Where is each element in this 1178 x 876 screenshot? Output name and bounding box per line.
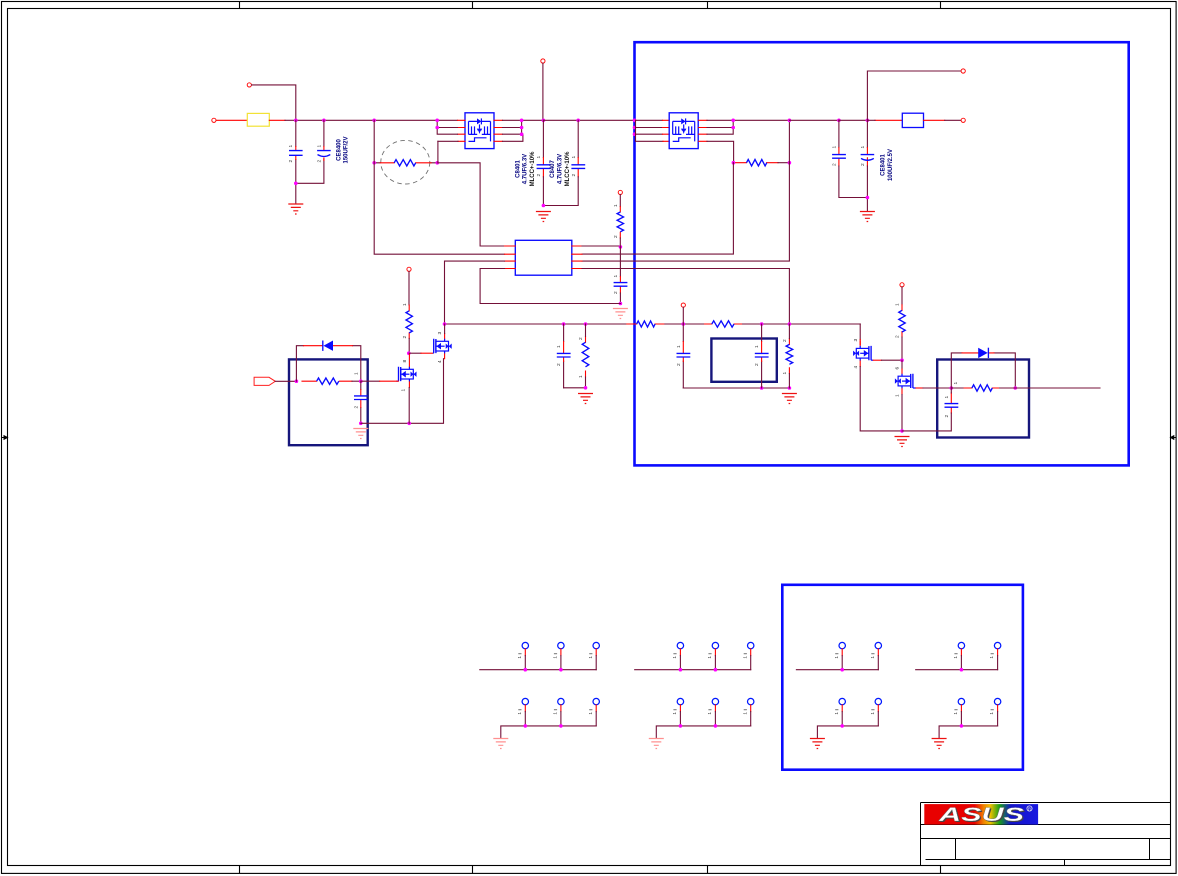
node G1	[559, 724, 563, 728]
resistor R-ic1 zigzag (vertical)	[617, 212, 623, 232]
jumper J8400	[902, 113, 923, 127]
svg-text:1: 1	[742, 656, 748, 659]
ground GND8	[895, 437, 910, 447]
svg-text:1: 1	[989, 656, 995, 659]
resistor R-dash leads	[374, 162, 437, 164]
capacitor C8400 red stubs	[296, 147, 324, 161]
capacitor C-box2 plates	[755, 353, 769, 357]
date row divider	[926, 859, 1171, 861]
resistor R-mid2 red stubs	[705, 323, 742, 325]
terminal T4	[961, 69, 965, 73]
testpoint G4B2 circle	[994, 698, 1000, 704]
node mid-J2	[562, 322, 566, 326]
node mid-J1	[443, 322, 447, 326]
testpoint G1B1 circle	[522, 698, 528, 704]
wire IC pin4 loop (left down right)	[480, 269, 620, 304]
svg-text:2: 2	[676, 363, 682, 366]
ground G2	[649, 739, 664, 749]
port P1	[254, 377, 275, 385]
node Rout-R	[788, 161, 792, 165]
svg-text:MLCC+-10%: MLCC+-10%	[565, 151, 571, 187]
resistor R-mid3 red stubs	[585, 337, 587, 378]
wire Q4 source down	[901, 395, 903, 431]
capacitor C-box1 leads	[360, 381, 362, 423]
svg-text:100UF/2.5V: 100UF/2.5V	[888, 149, 894, 181]
diode D1 left riser	[296, 346, 360, 382]
NAVY BOX MIDDLE	[711, 339, 776, 382]
resistor R-port zigzag	[317, 378, 339, 384]
U8400 internal source step	[469, 138, 487, 142]
mid row wire	[445, 323, 861, 325]
testpoint G1T3 circle	[593, 642, 599, 648]
node G3	[840, 724, 844, 728]
svg-text:4.7UF/6.3V: 4.7UF/6.3V	[523, 154, 529, 184]
wire package1 pin4 down to Rdash-R	[437, 141, 439, 161]
testpoint G1B2 lead	[560, 705, 562, 712]
bottom wire mid2	[683, 387, 789, 389]
testpoint G1T1 lead	[524, 649, 526, 656]
node Rdash-R	[436, 161, 440, 165]
capacitor C-mid1 plates	[557, 353, 571, 357]
ground GND6	[578, 394, 593, 404]
svg-text:1: 1	[953, 656, 959, 659]
svg-text:4: 4	[437, 360, 443, 363]
ground GND3	[860, 212, 875, 222]
testpoint G4T1 circle	[958, 642, 964, 648]
testpoint G3T1 circle	[839, 642, 845, 648]
wire port to junction	[275, 380, 296, 382]
testpoint G1B1 lead	[524, 705, 526, 712]
svg-text:2: 2	[288, 160, 294, 163]
wire Rout-R down to IC pin3 row	[582, 163, 789, 261]
U8400 internal row3	[469, 133, 491, 135]
node G1	[559, 668, 563, 672]
zone tick top 4	[940, 2, 942, 9]
node Rout-L	[732, 161, 736, 165]
node Rq4-B	[900, 358, 904, 362]
diode D1 (pointing left)	[324, 341, 334, 351]
node CE8401B-join	[866, 196, 870, 200]
svg-text:1: 1	[707, 712, 713, 715]
ground G4	[932, 739, 947, 749]
capacitor C-box2 leads	[761, 324, 763, 388]
node pkg1-R1	[520, 119, 524, 123]
capacitor C-ic bottom lead	[619, 293, 621, 304]
node G2	[714, 724, 718, 728]
svg-text:1: 1	[754, 345, 760, 348]
svg-text:1: 1	[517, 712, 523, 715]
capacitor C8401 bottom lead	[542, 177, 544, 206]
testpoint G4T2 circle	[994, 642, 1000, 648]
wire G2 bottom bus	[656, 726, 750, 738]
wire Rout-L down to IC pin2 row right	[582, 163, 733, 254]
node Rdash-L	[372, 161, 376, 165]
node bus-J6	[788, 119, 792, 123]
resistor R-nb3 red stubs	[963, 387, 1000, 389]
testpoint G4B1 lead	[960, 705, 962, 712]
resistor R-mid4 red stubs	[788, 339, 790, 374]
zone tick top 1	[239, 2, 241, 9]
resistor R-port right lead	[352, 380, 361, 382]
transistor Q4 (nmos, gate right, mirrored)	[895, 360, 916, 394]
capacitor CE8401B bottom lead	[866, 166, 868, 211]
testpoint G1T3 lead	[595, 649, 597, 656]
resistor R-dash red stubs	[380, 162, 431, 164]
dashed circle highlight	[381, 140, 430, 184]
wire G3 top bus	[796, 669, 878, 671]
terminal T7	[681, 303, 685, 307]
wire T3 down to bus	[542, 63, 544, 120]
capacitor C-J7 lead	[838, 120, 840, 147]
resistor R-nb3 zigzag	[972, 385, 992, 391]
node Rport-R	[359, 379, 363, 383]
wire fuse to junction (red then maroon)	[269, 119, 285, 121]
svg-text:1: 1	[316, 145, 322, 148]
svg-text:C8401: C8401	[515, 160, 521, 178]
svg-text:1: 1	[578, 375, 584, 378]
U8401 internal source step	[673, 138, 691, 142]
wire T9 down	[901, 287, 903, 305]
node botrow3-J	[900, 429, 904, 433]
node icP4-join	[619, 302, 623, 306]
svg-text:2: 2	[832, 163, 838, 166]
svg-text:1: 1	[676, 345, 682, 348]
capacitor C8401 plates	[537, 165, 551, 169]
terminal T9	[900, 283, 904, 287]
svg-text:6: 6	[895, 367, 901, 370]
bottom wire box1 to mosfet risers	[361, 359, 444, 424]
node G4	[960, 668, 964, 672]
node Rq1-B	[407, 351, 411, 355]
svg-text:2: 2	[782, 339, 788, 342]
wire T6 down	[619, 195, 621, 207]
resistor R-q1 zigzag (vertical)	[406, 311, 412, 333]
svg-text:1: 1	[588, 656, 594, 659]
capacitor C-mid2 leads	[682, 324, 684, 388]
svg-text:1: 1	[556, 345, 562, 348]
node G1	[524, 724, 528, 728]
testpoint G3B2 lead	[877, 705, 879, 712]
wire Rq1-B to Q2 gate	[409, 352, 421, 354]
capacitor C-box1 plates	[354, 396, 368, 400]
resistor R-mid4 leads	[788, 324, 790, 388]
ASUS logo	[924, 804, 1038, 827]
wire IC pin4 right to riser down	[582, 269, 789, 323]
svg-text:1: 1	[613, 204, 619, 207]
wire G4 bottom bus	[939, 726, 998, 738]
svg-text:150UF/2V: 150UF/2V	[344, 136, 350, 163]
node G4	[960, 724, 964, 728]
logo row divider	[921, 824, 1171, 826]
diode D2 branch riser	[951, 353, 1015, 388]
testpoint G1B3 lead	[595, 705, 597, 712]
svg-text:1: 1	[553, 712, 559, 715]
U8400 internal diode row	[469, 120, 491, 122]
node botrow-J1	[407, 422, 411, 426]
svg-text:1: 1	[288, 145, 294, 148]
capacitor C8400 plates	[289, 151, 303, 156]
capacitor C-mid2 plates	[677, 353, 691, 357]
capacitor CE8401B lead	[866, 120, 868, 147]
resistor R-q4 bottom lead	[901, 337, 903, 360]
node pkg2-R1	[731, 119, 735, 123]
testpoint G3B2 circle	[875, 698, 881, 704]
zone tick bottom 1	[239, 866, 241, 874]
zone tick top 2	[472, 2, 474, 9]
testpoint G1T2 lead	[560, 649, 562, 656]
svg-text:1: 1	[782, 372, 788, 375]
ground GND7	[782, 394, 797, 404]
svg-text:1: 1	[553, 656, 559, 659]
node bus-J4	[542, 119, 546, 123]
node pkg2-L2	[633, 126, 637, 130]
svg-text:1: 1	[742, 712, 748, 715]
svg-text:1: 1	[588, 712, 594, 715]
node pkg1-R3	[520, 132, 524, 136]
wire bus J7 to J8	[839, 119, 868, 121]
testpoint G4B2 lead	[997, 705, 999, 712]
ground GND2	[536, 212, 551, 222]
zone tick bottom 2	[472, 866, 474, 874]
node bus-J3	[372, 119, 376, 123]
zone arrow left	[2, 436, 8, 440]
testpoint G4B1 circle	[958, 698, 964, 704]
capacitor C-mid1 leads	[563, 324, 565, 388]
wire T8 down	[408, 271, 410, 305]
zone tick bottom 3	[707, 866, 709, 874]
wire T1 to bus	[252, 85, 296, 119]
U8400 right pin stubs (red)	[494, 120, 503, 141]
svg-text:1: 1	[953, 712, 959, 715]
NAVY BOX RIGHT	[937, 360, 1029, 438]
testpoint G2B3 lead	[750, 705, 752, 712]
svg-text:2: 2	[754, 363, 760, 366]
svg-text:CE8400: CE8400	[337, 138, 343, 160]
zone arrow right	[1171, 436, 1177, 440]
node nb3-J2	[1014, 386, 1018, 390]
node Rmid3-B	[584, 386, 588, 390]
wire G4 top bus	[916, 669, 998, 671]
resistor R-mid3 top lead	[585, 324, 587, 388]
testpoint G2T1 circle	[677, 642, 683, 648]
node botrow2-J1	[760, 386, 764, 390]
svg-text:1: 1	[860, 146, 866, 149]
ground G1	[493, 739, 508, 749]
testpoint G2B2 circle	[712, 698, 718, 704]
svg-text:2: 2	[895, 335, 901, 338]
svg-text:2: 2	[613, 235, 619, 238]
wire Q3 gate to junction	[873, 359, 881, 361]
svg-text:4.7UF/6.3V: 4.7UF/6.3V	[557, 154, 563, 184]
node icR1	[619, 245, 623, 249]
node G3	[840, 668, 844, 672]
node pkg2-L1	[633, 119, 637, 123]
terminal T8	[407, 267, 411, 271]
svg-text:1: 1	[517, 656, 523, 659]
wire bus to Rout-R vertical	[788, 120, 790, 162]
node G2	[679, 724, 683, 728]
terminal T2	[212, 118, 216, 122]
node C-join	[294, 182, 298, 186]
testpoint G2T2 lead	[714, 649, 716, 656]
wire T2 to fuse (red)	[216, 119, 247, 121]
capacitor CE8401B plates (polarized)	[861, 155, 875, 161]
svg-text:1: 1	[870, 656, 876, 659]
svg-text:2: 2	[316, 160, 322, 163]
wire pkg2 right pin ties	[707, 120, 789, 162]
resistor R-mid2 zigzag	[712, 321, 734, 327]
svg-text:1: 1	[353, 372, 359, 375]
wire J8 to jumper (red)	[875, 119, 902, 121]
node nb3-J1	[950, 386, 954, 390]
U8401 internal row3	[673, 133, 695, 135]
svg-text:1: 1	[402, 303, 408, 306]
svg-text:2: 2	[860, 163, 866, 166]
resistor R-dash zigzag	[394, 160, 416, 166]
diode D2 red stubs	[962, 352, 994, 354]
testpoint G4T2 lead	[997, 649, 999, 656]
testpoint G3T2 lead	[877, 649, 879, 656]
node C8401-gnd-join	[542, 204, 546, 208]
capacitor C8407 plates	[571, 165, 585, 169]
capacitor CE8400 plates (polarized)	[317, 151, 331, 157]
svg-text:1: 1	[707, 656, 713, 659]
ground G3	[810, 739, 825, 749]
wire Q1 source to bottom row	[408, 388, 410, 424]
svg-text:1: 1	[834, 712, 840, 715]
capacitor C8401 lead	[542, 120, 544, 157]
testpoint G3B1 lead	[841, 705, 843, 712]
wire J8 up and over to terminal T4	[867, 71, 960, 120]
svg-text:C8407: C8407	[550, 160, 556, 178]
ic U8402 right pin stubs	[572, 246, 582, 269]
node botrow2-J2	[788, 386, 792, 390]
capacitor C-ic plates	[614, 283, 628, 287]
svg-text:CE8401: CE8401	[881, 153, 887, 175]
wire mid row corner down to Q3	[859, 324, 861, 340]
resistor R-mid3 zigzag (vertical)	[582, 342, 589, 367]
capacitor C-J7 plates	[832, 155, 846, 159]
resistor R-q4 zigzag (vertical)	[899, 310, 905, 332]
svg-text:3: 3	[437, 332, 443, 335]
resistor R-out zigzag	[747, 160, 767, 166]
resistor R-ic1 red stubs	[619, 207, 621, 239]
terminal T6	[618, 190, 622, 194]
node bus-J8	[866, 119, 870, 123]
node G1	[524, 668, 528, 672]
U8400 internal fet arrow	[477, 129, 482, 134]
svg-text:1: 1	[672, 712, 678, 715]
testpoint G2B3 circle	[748, 698, 754, 704]
wire G3 bottom bus	[817, 726, 878, 738]
ground GND4 (light)	[613, 309, 628, 319]
svg-text:MLCC+-10%: MLCC+-10%	[530, 151, 536, 187]
svg-text:1: 1	[834, 656, 840, 659]
svg-text:1: 1	[613, 275, 619, 278]
testpoint G2B2 lead	[714, 705, 716, 712]
wire Q3 source down to bottom row	[860, 367, 902, 431]
svg-text:1: 1	[571, 156, 577, 159]
wire bus J4 to J5	[543, 119, 634, 121]
terminal T3 top	[541, 59, 545, 63]
ground GND1	[288, 204, 303, 214]
svg-text:3: 3	[853, 339, 859, 342]
node Cbox1-B	[359, 422, 363, 426]
NAVY BOX LEFT	[289, 359, 368, 445]
node pkg2-R2	[731, 126, 735, 130]
diode D1 red stubs	[304, 345, 353, 347]
testpoint G1B2 circle	[558, 698, 564, 704]
testpoint G1T2 circle	[558, 642, 564, 648]
svg-text:2: 2	[613, 291, 619, 294]
svg-text:2: 2	[536, 174, 542, 177]
transistor Q2 (nmos, gate left-down)	[433, 324, 452, 359]
wire IC pin3 left riser	[445, 261, 505, 324]
node mid-J3	[584, 322, 588, 326]
resistor R-mid1 red stubs	[627, 323, 664, 325]
node G2	[679, 668, 683, 672]
dual-mosfet U8401 body	[669, 113, 698, 149]
testpoint G2B1 lead	[679, 705, 681, 712]
node bus-J7	[837, 119, 841, 123]
node bus-J1	[294, 119, 298, 123]
node pkg1-L2	[435, 126, 439, 130]
svg-text:1: 1	[944, 396, 950, 399]
wire T7 down to mid row	[682, 307, 684, 324]
node mid-J6	[788, 322, 792, 326]
testpoint G3T2 circle	[875, 642, 881, 648]
U8401 internal columns	[673, 121, 695, 141]
testpoint G2T3 circle	[748, 642, 754, 648]
wire bus down to Rdash-L and on to IC pin2 row	[374, 120, 504, 254]
capacitor C-nb3 leads	[950, 393, 952, 413]
resistor R-ic1 bottom lead	[619, 238, 621, 247]
bottom wire mid1	[564, 387, 586, 389]
svg-text:2: 2	[556, 363, 562, 366]
title block outline	[921, 803, 1171, 866]
wire G1 top bus	[480, 669, 596, 671]
date/sheet divider	[1064, 860, 1066, 866]
capacitor C-J7 bottom lead	[839, 166, 868, 198]
svg-text:1: 1	[536, 156, 542, 159]
node bus-J2	[322, 119, 326, 123]
wire bus J6 to right	[789, 119, 839, 121]
svg-text:1: 1	[989, 712, 995, 715]
testpoint G2T1 lead	[679, 649, 681, 656]
node pkg2-L3	[633, 132, 637, 136]
capacitor C8407 bottom lead to join	[543, 177, 578, 206]
capacitor C-nb3 plates	[945, 404, 959, 408]
TITLE BLOCK	[921, 803, 1171, 866]
svg-text:1: 1	[953, 382, 959, 385]
ic U8402 left pin stubs	[505, 246, 516, 269]
node mid-J4	[682, 322, 686, 326]
doc/rev divider	[1149, 839, 1151, 860]
transistor Q1 (nmos, gate left)	[396, 354, 416, 388]
svg-text:1: 1	[401, 389, 407, 392]
resistor R-port red stubs	[302, 380, 352, 382]
capacitor C-ic lead down from icR1	[619, 247, 621, 277]
wire G1 bottom bus	[501, 726, 596, 738]
wire IC pin1 right to resistor junction	[582, 245, 620, 247]
testpoint G3T1 lead	[841, 649, 843, 656]
zone tick bottom 4	[940, 866, 942, 874]
main bus segment A	[296, 119, 458, 121]
pkg2 left red stubs	[663, 120, 670, 141]
zone tick top 3	[707, 2, 709, 9]
testpoint G2T3 lead	[750, 649, 752, 656]
resistor R-q1 bottom lead	[408, 338, 410, 353]
